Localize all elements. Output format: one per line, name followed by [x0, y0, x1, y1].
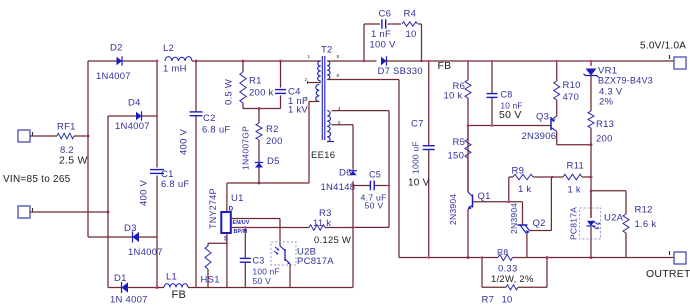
node AC1 junction: [87, 135, 90, 138]
transistor Q2 2N3904: [518, 224, 528, 226]
wire D3 row: [88, 236, 133, 238]
wire VR1 branch: [590, 61, 592, 66]
svg-text:1N 4007: 1N 4007: [110, 295, 148, 306]
node R6 top tap: [467, 60, 470, 63]
node C7 top tap: [427, 60, 430, 63]
wire R12 branch: [591, 190, 626, 192]
svg-text:EN/UV: EN/UV: [233, 220, 250, 226]
svg-text:U2A: U2A: [604, 213, 624, 224]
wire R3 to bias node: [325, 227, 353, 229]
wire J1 to RF1: [30, 135, 57, 137]
capacitor C2: [190, 111, 203, 113]
capacitor C5: [369, 181, 371, 191]
node drain junction: [258, 182, 261, 185]
resistor R3: [309, 225, 325, 231]
wire C3 branch: [244, 228, 246, 259]
svg-text:C6: C6: [379, 9, 392, 20]
wire D2 row: [88, 60, 117, 62]
node AC2 junction: [107, 211, 110, 214]
resistor R10: [554, 81, 560, 100]
svg-text:PC817A: PC817A: [297, 256, 334, 267]
svg-text:200: 200: [596, 134, 613, 145]
resistor R7: [506, 285, 518, 290]
transformer T2 primary winding lower: [316, 85, 320, 102]
opto U2A PC817A: [580, 208, 601, 239]
wire DC+ bus vertical: [156, 61, 158, 168]
svg-text:C7: C7: [411, 119, 424, 130]
resistor R6: [465, 80, 471, 98]
svg-text:1 kV: 1 kV: [288, 105, 308, 116]
wire secondary top pin to rail: [327, 60, 364, 62]
svg-text:U1: U1: [231, 193, 244, 204]
node C4 tap: [279, 60, 282, 63]
diode D5: [255, 163, 263, 168]
svg-text:200: 200: [266, 136, 283, 147]
diode D3: [133, 232, 140, 242]
wire C4 branch: [280, 61, 282, 88]
wire EN to opto: [279, 219, 281, 247]
transformer T2 secondary winding: [327, 61, 330, 80]
svg-text:C5: C5: [369, 170, 381, 180]
node source/HS1 junction: [226, 242, 229, 245]
node D6/C5 junction: [352, 184, 355, 187]
svg-text:D2: D2: [110, 43, 123, 54]
node Q1 emitter junction: [467, 256, 470, 259]
svg-text:2: 2: [305, 77, 308, 82]
node R7 left junction: [481, 256, 484, 259]
svg-text:D7 SB330: D7 SB330: [378, 66, 423, 77]
svg-text:1N4007: 1N4007: [115, 121, 150, 132]
wire U1 drain: [226, 183, 228, 212]
svg-text:Q1: Q1: [478, 191, 491, 202]
svg-text:2N3904: 2N3904: [509, 203, 519, 234]
T2 pin 2 stub: [308, 82, 321, 84]
wire U2A LED top: [590, 191, 592, 218]
svg-text:C3: C3: [253, 256, 265, 266]
output return terminal: [674, 252, 686, 264]
diode D2: [117, 57, 123, 66]
resistor R5: [465, 139, 471, 158]
wire D4 row: [108, 115, 136, 117]
resistor R4: [402, 22, 418, 26]
svg-text:D: D: [229, 207, 234, 213]
svg-text:R7: R7: [482, 295, 495, 306]
wire RF1 to AC1 bus: [74, 135, 88, 137]
node Q3/R13 junction: [590, 143, 593, 146]
wire D5 to drain node: [258, 168, 260, 184]
svg-text:2N3906: 2N3906: [522, 131, 557, 142]
svg-text:RF1: RF1: [57, 122, 76, 133]
node U2A bottom junction: [590, 256, 593, 259]
wire secondary return pin: [327, 79, 399, 81]
wire snubber top row: [364, 23, 380, 25]
node R11 junction: [590, 176, 593, 179]
node DC- bottom junction: [156, 286, 159, 289]
zener VR1 BZX79-B4V3: [586, 69, 597, 76]
wire U2A LED to ground rail: [590, 227, 592, 258]
capacitor C4: [275, 89, 286, 91]
wire source to HS1: [208, 242, 227, 244]
svg-text:1: 1: [308, 54, 311, 59]
output terminal 5V: [674, 57, 686, 69]
svg-text:FB: FB: [438, 60, 452, 72]
wire bias return to ground: [352, 186, 354, 288]
wire D1 row: [108, 287, 122, 289]
resistor HS1 heatsink: [207, 243, 209, 246]
svg-text:L2: L2: [163, 43, 174, 54]
svg-text:Q3: Q3: [536, 112, 549, 123]
wire R6 branch: [467, 61, 469, 80]
svg-text:PC817A: PC817A: [569, 207, 579, 240]
svg-text:HS1: HS1: [201, 275, 220, 286]
wire bias tap to D6: [352, 125, 354, 170]
svg-text:L1: L1: [166, 272, 177, 283]
node BP/C3 junction: [244, 226, 247, 229]
svg-text:R1: R1: [249, 76, 262, 87]
inductor L2: [165, 57, 192, 61]
svg-text:D3: D3: [124, 223, 137, 234]
resistor RF1: [57, 133, 74, 139]
wire Q2 base drop: [522, 202, 524, 225]
svg-text:50 V: 50 V: [499, 109, 522, 121]
wire top rail L2 to T2: [192, 60, 321, 62]
svg-text:10 k: 10 k: [444, 91, 463, 102]
wire bias jog to ground branch: [353, 226, 389, 228]
wire AC1 bus vertical: [87, 61, 89, 237]
resistor R13: [588, 111, 594, 128]
svg-text:BZX79-B4V3: BZX79-B4V3: [598, 76, 653, 86]
node R7 right junction: [546, 256, 549, 259]
node R6/R5 junction: [467, 124, 470, 127]
capacitor C7: [423, 145, 435, 147]
transistor Q3 2N3906: [550, 117, 552, 130]
svg-text:10 V: 10 V: [408, 178, 430, 189]
wire bias top pin: [332, 110, 390, 112]
svg-text:100 V: 100 V: [370, 40, 396, 51]
svg-text:R10: R10: [563, 80, 581, 91]
wire R7 loop: [481, 258, 483, 288]
svg-text:R12: R12: [635, 205, 653, 216]
wire C7 branch: [428, 61, 430, 146]
svg-text:3: 3: [305, 96, 308, 101]
wire AC2 bus vertical: [107, 116, 109, 288]
wire R9 branch: [508, 177, 510, 202]
wire snubber left leg: [363, 24, 365, 61]
node snubber right tap: [420, 60, 423, 63]
transformer T2 primary winding upper: [318, 61, 321, 81]
wire clamp bottom: [243, 108, 281, 110]
capacitor C6: [381, 19, 383, 28]
node clamp junction: [258, 107, 261, 110]
wire drain row: [227, 182, 309, 184]
wire primary ground rail: [157, 287, 164, 289]
svg-text:TNY274P: TNY274P: [208, 188, 218, 229]
wire Q3 emitter to R10: [556, 100, 558, 116]
capacitor C8: [487, 93, 498, 95]
inductor L1 ferrite bead: [164, 284, 188, 288]
diode D1: [122, 282, 129, 292]
wire bias tap pin: [332, 124, 354, 126]
resistor R8: [498, 255, 513, 261]
svg-text:6.8 uF: 6.8 uF: [161, 179, 189, 190]
svg-text:0.125 W: 0.125 W: [314, 235, 351, 246]
wire U1 source: [226, 233, 228, 288]
wire C2 branch: [195, 61, 197, 112]
node C8 bottom junction: [491, 124, 494, 127]
node DC+ top junction: [156, 60, 159, 63]
opto U2B PC817A: [271, 242, 296, 265]
svg-text:R11: R11: [567, 161, 584, 172]
wire bias supply vertical: [388, 111, 390, 228]
svg-text:10: 10: [406, 29, 417, 40]
svg-text:1/2W, 2%: 1/2W, 2%: [491, 274, 534, 285]
svg-text:100 nF: 100 nF: [253, 267, 280, 277]
node C5/bias junction: [388, 184, 391, 187]
svg-text:10: 10: [502, 295, 513, 306]
wire Q1 base row: [473, 201, 523, 203]
diode D6: [349, 171, 356, 176]
input terminal J2 (neutral): [18, 206, 30, 218]
wire R12 to ground rail: [625, 233, 627, 258]
wire C8 branch: [491, 61, 493, 94]
svg-text:0.5 W: 0.5 W: [224, 79, 235, 105]
resistor R11: [563, 174, 582, 180]
svg-text:VIN=85 to 265: VIN=85 to 265: [3, 174, 71, 185]
wire J2 to AC2 bus: [30, 211, 108, 213]
node R1 tap: [242, 60, 245, 63]
node C8 top tap: [491, 60, 494, 63]
wire C5 row: [353, 185, 370, 187]
node snubber left tap: [363, 60, 366, 63]
svg-text:1N4007GP: 1N4007GP: [241, 126, 251, 170]
svg-text:D4: D4: [128, 98, 141, 109]
svg-text:1000 uF: 1000 uF: [411, 141, 421, 174]
svg-text:1.6 k: 1.6 k: [635, 219, 657, 230]
wire secondary ground rail: [399, 257, 498, 259]
svg-text:2N3904: 2N3904: [448, 194, 458, 225]
svg-text:400 V: 400 V: [139, 180, 150, 206]
svg-text:400 V: 400 V: [179, 129, 190, 155]
transformer T2 core: [321, 56, 323, 140]
svg-text:D5: D5: [267, 156, 280, 167]
wire U2B emitter to ground: [289, 264, 291, 288]
wire R2 branch: [258, 109, 260, 124]
svg-text:R4: R4: [404, 9, 417, 20]
transformer T2 bias winding: [327, 111, 330, 142]
svg-text:FB: FB: [172, 289, 187, 301]
wire U1 BP/M pin: [231, 227, 309, 229]
node R9/base junction: [508, 201, 511, 204]
svg-text:1N4007: 1N4007: [96, 71, 131, 82]
resistor R1: [240, 72, 246, 103]
svg-text:R8: R8: [497, 247, 508, 257]
svg-text:2%: 2%: [599, 97, 614, 108]
input terminal J1 (line): [18, 130, 30, 142]
svg-text:1N4148: 1N4148: [321, 182, 356, 193]
node VR1 tap: [590, 60, 593, 63]
wire secondary rail to output: [386, 60, 674, 62]
capacitor C1: [150, 169, 164, 171]
resistor R9: [513, 174, 533, 180]
svg-text:C8: C8: [501, 90, 513, 100]
node C7 bottom junction: [427, 256, 430, 259]
resistor R12: [623, 214, 629, 233]
transistor Q1 2N3904: [467, 126, 469, 193]
svg-text:1 k: 1 k: [568, 185, 581, 196]
svg-text:1 k: 1 k: [518, 184, 531, 195]
svg-text:OUTRET: OUTRET: [646, 268, 690, 280]
svg-text:0.33: 0.33: [498, 264, 518, 275]
wire R1 branch: [242, 61, 244, 72]
svg-text:6.8 uF: 6.8 uF: [202, 125, 230, 136]
svg-text:D1: D1: [114, 273, 127, 284]
svg-text:Q2: Q2: [533, 218, 546, 229]
op-amp U1 TNY274P body: [221, 212, 231, 233]
svg-text:R9: R9: [512, 166, 525, 177]
svg-text:200 k: 200 k: [249, 88, 274, 99]
svg-text:D6: D6: [339, 168, 352, 179]
wire feedback node row: [468, 125, 551, 127]
svg-text:EE16: EE16: [311, 150, 335, 161]
svg-text:470: 470: [563, 92, 580, 103]
svg-text:1 mH: 1 mH: [163, 64, 187, 75]
node bias return junction: [352, 226, 355, 229]
wire Q3 collector: [556, 131, 558, 145]
resistor R2: [256, 123, 262, 140]
wire D6 to C5 row: [352, 181, 354, 186]
svg-text:R13: R13: [596, 119, 614, 130]
wire VR1 to R13: [590, 76, 592, 112]
capacitor C3: [240, 257, 251, 259]
wire secondary return vertical: [398, 80, 400, 258]
svg-text:50 V: 50 V: [365, 201, 384, 211]
node C2 tap: [195, 60, 198, 63]
node R9/R11/Q2 junction: [551, 176, 554, 179]
svg-text:2.5 W: 2.5 W: [59, 155, 88, 167]
svg-text:9: 9: [337, 54, 340, 59]
svg-text:R5: R5: [453, 137, 466, 148]
wire R10 to rail: [556, 61, 558, 81]
node R10 tap: [555, 60, 558, 63]
svg-text:S: S: [224, 237, 228, 243]
svg-text:T2: T2: [321, 45, 333, 56]
svg-text:50 V: 50 V: [253, 276, 272, 286]
svg-text:1 nF: 1 nF: [371, 29, 391, 40]
diode D7: [364, 60, 377, 62]
svg-text:150: 150: [448, 151, 465, 162]
wire R13 to junctions: [590, 128, 592, 218]
svg-text:5.0V/1.0A: 5.0V/1.0A: [640, 41, 686, 52]
wire T2 primary bottom drop: [308, 102, 310, 184]
svg-text:8: 8: [337, 73, 340, 78]
wire Q2 collector: [530, 230, 552, 232]
node R12 branch junction: [590, 190, 593, 193]
svg-text:R2: R2: [266, 124, 279, 135]
T2 pin 3 stub to drain: [309, 101, 319, 103]
diode D4: [136, 112, 142, 121]
svg-text:C2: C2: [203, 113, 216, 124]
wire snubber right leg: [418, 23, 422, 25]
wire U1 EN/UV pin: [231, 218, 280, 220]
